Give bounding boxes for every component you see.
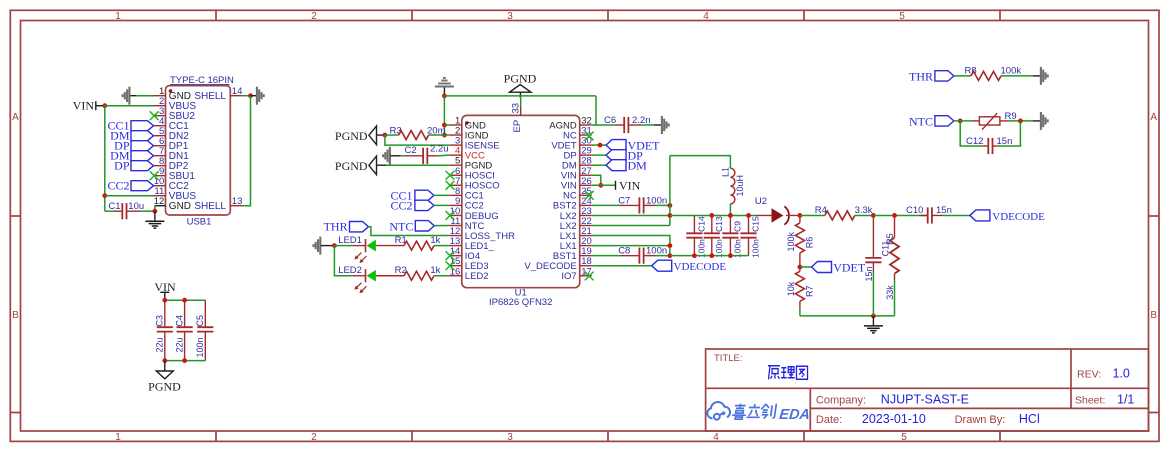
svg-text:EDA: EDA	[779, 407, 811, 423]
capacitor C1	[105, 201, 155, 219]
wire pin27 to pin26	[592, 175, 601, 185]
svg-text:C4: C4	[174, 315, 184, 327]
junction L1/C9 top	[728, 213, 733, 218]
svg-text:33k: 33k	[885, 285, 895, 300]
junction pin26	[598, 183, 603, 188]
svg-text:L1: L1	[721, 167, 731, 177]
svg-text:C9: C9	[733, 221, 743, 232]
capacitor C12 15n	[960, 121, 1020, 154]
capacitor C6 2.2n	[596, 115, 654, 133]
svg-text:VIN: VIN	[73, 99, 95, 113]
junction LX2 rail	[668, 213, 673, 218]
svg-text:100k: 100k	[1001, 65, 1022, 76]
resistor R7 10k	[786, 267, 815, 316]
svg-text:VDET: VDET	[833, 260, 866, 274]
capacitor C11 15n	[864, 215, 890, 315]
port PGND (top)	[504, 72, 537, 99]
net flag CC1 pin8	[390, 188, 449, 202]
junction C3 bottom	[162, 358, 167, 363]
resistor R5 33k	[885, 215, 899, 315]
resistor R6 100k	[786, 215, 815, 267]
no-connect X pin10	[446, 211, 455, 220]
wire pin28	[592, 164, 606, 166]
wire VBUS pin11	[105, 195, 154, 197]
junction C13 bottom	[709, 253, 714, 258]
net flag THR (top right)	[909, 69, 954, 83]
wire pin18	[592, 265, 652, 267]
port VIN	[73, 99, 105, 113]
capacitor C15	[740, 215, 760, 258]
no-connect X pin7	[446, 181, 455, 190]
svg-text:22u: 22u	[174, 337, 184, 352]
svg-text:C2: C2	[405, 145, 417, 156]
net flag NTC	[389, 220, 434, 234]
capacitor C14	[686, 215, 706, 258]
svg-text:C10: C10	[906, 205, 923, 216]
wire EP to PGND port	[520, 96, 522, 107]
junction C3 top	[162, 298, 167, 303]
net flag CC2 pin10	[107, 179, 153, 193]
wire flying-cap bottom rail	[670, 255, 749, 257]
junction C9 bottom	[728, 253, 733, 258]
svg-text:THR: THR	[909, 69, 933, 83]
svg-text:DM: DM	[628, 159, 648, 173]
svg-text:1: 1	[115, 432, 121, 443]
junction LED1	[332, 243, 337, 248]
no-connect X pin9	[150, 171, 159, 180]
net flag DP pin8	[114, 159, 153, 173]
wire ISENSE	[385, 135, 449, 145]
svg-text:EP: EP	[512, 120, 523, 133]
svg-text:TITLE:: TITLE:	[714, 353, 743, 364]
net flag DM pin5	[110, 129, 153, 143]
wire VBUS pin2	[105, 105, 154, 107]
net flag DM pin28	[606, 159, 647, 173]
svg-text:3: 3	[507, 432, 513, 443]
net flag DP pin29	[606, 149, 643, 163]
wire pin23 LX2	[592, 214, 670, 216]
svg-text:A: A	[1150, 112, 1157, 123]
shield symbol at R8	[1033, 67, 1048, 85]
no-connect X pin6	[446, 171, 455, 180]
wire to R5 top	[873, 214, 927, 216]
right pin numbers	[581, 116, 592, 278]
connector USB1 TYPE-C 16PIN	[154, 75, 243, 228]
resistor R3 20m	[385, 125, 449, 139]
svg-text:IO7: IO7	[561, 271, 576, 282]
junction NTC left	[958, 119, 963, 124]
wire pin30 VDET	[592, 144, 606, 146]
svg-text:1.0: 1.0	[1113, 366, 1130, 380]
svg-text:CC2: CC2	[107, 179, 129, 193]
wire pin26	[592, 184, 616, 186]
wire LX2 to L1 top	[670, 156, 731, 169]
resistor R2 1k	[395, 265, 450, 280]
junction pin30	[598, 143, 603, 148]
ground earth (gray) top-left of U1	[435, 78, 454, 96]
svg-text:THR: THR	[324, 220, 348, 234]
svg-text:A: A	[12, 112, 19, 123]
port PGND (bottom)	[148, 361, 181, 394]
junction C11 top	[871, 213, 876, 218]
svg-text:Sheet:: Sheet:	[1075, 394, 1105, 406]
wire NTC pin11	[434, 225, 449, 227]
junction C4 bottom	[182, 358, 187, 363]
svg-text:100n: 100n	[646, 246, 667, 257]
wire NTC to R9	[954, 120, 972, 122]
wire PGND pin5	[386, 164, 449, 166]
wire pin14	[242, 95, 250, 97]
junction ground	[871, 314, 876, 319]
no-connect X pin25	[585, 191, 594, 200]
svg-text:100n: 100n	[751, 239, 761, 258]
wire LED cathode column	[334, 246, 353, 276]
net flag NTC (top right)	[909, 114, 954, 128]
wire to pin1	[444, 124, 449, 126]
svg-text:4: 4	[713, 432, 719, 443]
junction pin14	[248, 93, 253, 98]
svg-text:2023-01-10: 2023-01-10	[862, 412, 926, 426]
capacitor C3	[155, 300, 173, 360]
svg-text:5: 5	[899, 11, 905, 22]
junction VDET divider	[798, 265, 803, 270]
port VIN (right of U1)	[616, 179, 641, 193]
svg-text:1/1: 1/1	[1117, 392, 1134, 406]
svg-text:B: B	[12, 310, 19, 321]
svg-text:PGND: PGND	[335, 159, 368, 173]
wire VBUS vertical	[104, 106, 106, 212]
shield symbol at pin 1	[123, 87, 138, 105]
JLC EDA logo	[707, 402, 730, 420]
wire pin21 LX1	[592, 236, 670, 256]
port VIN (bottom)	[154, 280, 176, 300]
svg-text:5: 5	[901, 432, 907, 443]
net flag VDET (divider)	[800, 260, 866, 274]
wire flying-cap top rail	[670, 214, 756, 216]
svg-text:13: 13	[232, 196, 243, 207]
svg-text:DP: DP	[114, 159, 130, 173]
svg-text:Company:: Company:	[816, 394, 866, 406]
svg-text:LED2: LED2	[338, 265, 362, 276]
svg-text:LED2: LED2	[465, 271, 489, 282]
junction C15 top	[746, 213, 751, 218]
junction R5 top	[892, 213, 897, 218]
wire LX2 column	[669, 156, 671, 226]
svg-text:HCl: HCl	[1019, 412, 1040, 426]
svg-text:NJUPT-SAST-E: NJUPT-SAST-E	[881, 392, 969, 406]
junction pin2	[442, 133, 447, 138]
svg-text:C13: C13	[714, 216, 724, 232]
junction C13 top	[709, 213, 714, 218]
wire THR to R8	[954, 75, 971, 77]
svg-text:CC2: CC2	[390, 198, 412, 212]
net flag VDECODE pin18	[652, 260, 727, 273]
svg-text:10uH: 10uH	[735, 175, 745, 197]
right pin names	[524, 120, 576, 282]
port PGND (left lower)	[335, 156, 386, 175]
junction R9 right	[1018, 119, 1023, 124]
svg-text:PGND: PGND	[504, 72, 537, 86]
left pin names	[465, 120, 515, 282]
svg-text:1k: 1k	[430, 265, 440, 276]
capacitor C5	[195, 300, 213, 360]
junction U2/R6	[798, 213, 803, 218]
junction C4 top	[182, 298, 187, 303]
shield symbol at C2	[383, 147, 400, 165]
port PGND (left upper)	[335, 126, 385, 145]
svg-text:VIN: VIN	[619, 179, 641, 193]
svg-text:USB1: USB1	[187, 217, 212, 228]
junction R3 left	[383, 133, 388, 138]
no-connect X pin17	[585, 272, 594, 281]
op-amp U1 IP6826 QFN32 body	[462, 115, 580, 308]
svg-text:C8: C8	[618, 246, 630, 257]
svg-text:3: 3	[507, 11, 513, 22]
net flag DM pin7	[110, 149, 153, 163]
capacitor C10 15n	[906, 205, 970, 224]
ground earth under pin12	[145, 211, 164, 228]
LED2	[338, 265, 404, 293]
wire bottom rail	[165, 360, 206, 362]
wire bottom rail to ground	[800, 315, 895, 317]
svg-text:2.2u: 2.2u	[430, 144, 449, 155]
svg-text:Date:: Date:	[816, 414, 842, 426]
resistor R8 100k	[965, 65, 1034, 80]
svg-text:R7: R7	[804, 285, 814, 297]
svg-text:C14: C14	[697, 216, 707, 232]
junction VIN/VBUS	[102, 103, 107, 108]
resistor R4 3.3k	[800, 205, 874, 220]
svg-text:3.3k: 3.3k	[855, 205, 873, 216]
svg-text:14: 14	[232, 86, 243, 97]
svg-text:Drawn By:: Drawn By:	[955, 414, 1006, 426]
ground earth (right)	[864, 316, 883, 333]
svg-text:100k: 100k	[786, 231, 796, 251]
LED1	[334, 235, 404, 263]
svg-text:B: B	[1150, 310, 1157, 321]
wire AGND down to pin32	[592, 96, 596, 125]
wire pin29	[592, 154, 606, 156]
wire GND column	[443, 96, 445, 135]
inductor L1 10uH	[721, 167, 746, 215]
svg-text:C15: C15	[751, 216, 761, 232]
svg-text:PGND: PGND	[148, 380, 181, 394]
shield symbol at C6	[654, 116, 669, 134]
wire pin1	[136, 95, 154, 97]
net flag VDECODE (right)	[970, 210, 1045, 223]
junction C7/LX2	[668, 203, 673, 208]
no-connect X pin31	[585, 132, 594, 141]
svg-text:1k: 1k	[430, 235, 440, 246]
svg-text:4: 4	[703, 11, 709, 22]
svg-text:C3: C3	[155, 315, 165, 327]
capacitor C4	[174, 300, 192, 360]
net flag CC2 pin9	[390, 198, 449, 212]
thermistor R9	[972, 111, 1033, 130]
wire pin12 to ground	[154, 206, 156, 212]
junction C14 bottom	[692, 253, 697, 258]
wire pin20 LX1	[592, 245, 670, 247]
right pins 32-17	[580, 125, 592, 276]
wire pin22 LX2	[592, 225, 670, 227]
svg-text:LED1: LED1	[338, 235, 362, 246]
capacitor C7 100n	[592, 195, 670, 213]
pin 33 EP	[511, 103, 522, 115]
title text 原理图 (drawn)	[768, 366, 808, 380]
svg-text:PGND: PGND	[335, 129, 368, 143]
net flag DP pin6	[114, 139, 153, 153]
svg-text:R6: R6	[804, 237, 814, 249]
svg-text:NTC: NTC	[389, 220, 413, 234]
svg-text:GND: GND	[169, 201, 191, 212]
left pin numbers	[450, 116, 461, 278]
svg-text:REV:: REV:	[1077, 368, 1101, 380]
capacitor C9	[722, 215, 742, 258]
svg-text:VDECODE: VDECODE	[992, 211, 1045, 223]
svg-text:100n: 100n	[195, 337, 205, 357]
wire AGND top rail	[444, 95, 596, 97]
svg-text:VDECODE: VDECODE	[674, 261, 727, 273]
capacitor C2 2.2u	[401, 144, 450, 164]
shield symbol at pin 14	[251, 87, 264, 105]
shield symbol at R9	[1033, 112, 1048, 130]
title block	[706, 349, 1149, 431]
shield symbol at LED cathodes	[314, 237, 335, 255]
junction LX1	[668, 243, 673, 248]
capacitor C13	[704, 215, 724, 258]
svg-text:15n: 15n	[936, 205, 952, 216]
svg-text:SHELL: SHELL	[194, 201, 226, 212]
wire THR to pin12	[369, 227, 450, 236]
no-connect X pin14	[446, 251, 455, 260]
svg-text:1: 1	[115, 11, 121, 22]
resistor R1 1k	[395, 235, 450, 250]
junction C8/bottom rail	[668, 253, 673, 258]
wire pin13 to pin14	[242, 96, 250, 206]
svg-text:10u: 10u	[128, 201, 144, 212]
svg-text:22u: 22u	[155, 337, 165, 352]
svg-text:NTC: NTC	[909, 114, 933, 128]
net flag THR	[324, 220, 369, 234]
net flag CC1 pin4	[107, 119, 153, 133]
svg-text:C5: C5	[195, 315, 205, 327]
svg-text:SHELL: SHELL	[194, 91, 226, 102]
wire top rail	[165, 299, 206, 301]
no-connect X pin3	[150, 111, 159, 120]
diode U2	[755, 196, 800, 225]
junction at gray earth	[442, 94, 447, 99]
svg-text:12: 12	[154, 196, 165, 207]
left pins 1-16	[449, 125, 462, 276]
capacitor C8 100n	[592, 246, 670, 264]
svg-text:2: 2	[311, 11, 317, 22]
svg-text:IP6826 QFN32: IP6826 QFN32	[489, 297, 552, 308]
net flag VDET pin30	[606, 138, 660, 152]
svg-text:2: 2	[311, 432, 317, 443]
svg-text:U2: U2	[755, 196, 767, 207]
junction pin1	[442, 123, 447, 128]
junction C1/gnd	[153, 209, 158, 214]
junction pin11	[102, 193, 107, 198]
no-connect X pin15	[446, 261, 455, 270]
svg-text:C1: C1	[108, 201, 120, 212]
